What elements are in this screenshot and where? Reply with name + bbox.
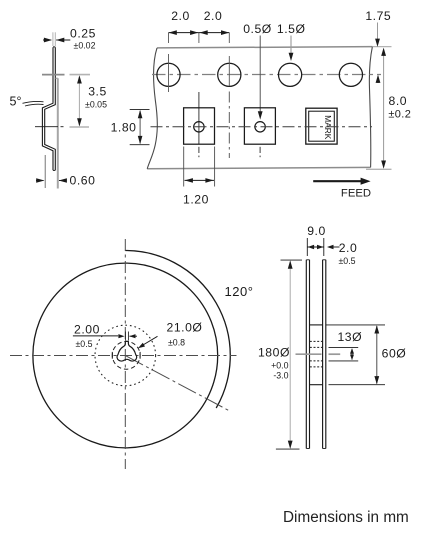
svg-text:120°: 120° xyxy=(224,284,253,299)
svg-text:21.0Ø: 21.0Ø xyxy=(167,320,203,334)
svg-text:5°: 5° xyxy=(10,95,22,109)
gray edge extensions right xyxy=(372,46,391,48)
dimension 0.25 arrows xyxy=(43,39,51,41)
MARK pocket outer xyxy=(306,108,337,144)
sprocket hole 3 xyxy=(279,63,302,86)
120 deg radius line xyxy=(125,356,228,411)
centerline below pocket 2 xyxy=(259,147,261,153)
svg-text:1.80: 1.80 xyxy=(111,121,137,135)
svg-text:1.20: 1.20 xyxy=(183,193,209,207)
dashed circle 13.2 xyxy=(112,341,140,369)
tape profile outline (section through pocket) xyxy=(42,47,53,170)
svg-text:2.0: 2.0 xyxy=(204,9,223,23)
dimension 1.80 xyxy=(130,108,150,110)
sprocket hole 4 xyxy=(339,63,362,86)
svg-text:60Ø: 60Ø xyxy=(382,347,407,361)
pocket row centerline xyxy=(151,126,373,128)
gray reference line at tape top (3.5 datum) xyxy=(42,74,65,76)
svg-text:0.25: 0.25 xyxy=(70,26,96,40)
svg-text:0.5Ø: 0.5Ø xyxy=(243,22,272,36)
thick gray rear surface / 0.60 extension line xyxy=(57,78,59,188)
svg-text:±0.2: ±0.2 xyxy=(388,109,411,121)
dimension 8.0 +/-0.2 xyxy=(383,50,385,167)
sprocket hole 2 xyxy=(218,63,241,86)
hub top edge xyxy=(310,324,323,326)
svg-text:±0.05: ±0.05 xyxy=(85,100,107,110)
hub tick marks xyxy=(111,352,113,359)
FEED arrow xyxy=(313,180,362,182)
svg-text:±0.8: ±0.8 xyxy=(168,337,185,347)
svg-text:9.0: 9.0 xyxy=(307,224,326,238)
svg-text:180Ø: 180Ø xyxy=(258,346,290,360)
svg-text:±0.5: ±0.5 xyxy=(338,256,355,266)
side view axis gray dashes xyxy=(296,353,322,355)
vertical centerline hole 1 xyxy=(168,33,170,43)
svg-text:2.0: 2.0 xyxy=(171,9,190,23)
dimension 2.0 / 2.0 chain xyxy=(169,32,199,34)
pocket 2 xyxy=(244,108,275,144)
hidden arbor hole lines xyxy=(310,340,323,342)
dimension 1.20 xyxy=(183,147,185,187)
vertical centerline pocket 1 xyxy=(198,33,200,43)
pocket 1 xyxy=(184,108,215,144)
svg-text:13Ø: 13Ø xyxy=(337,330,362,344)
reel outer circle xyxy=(33,263,218,448)
MARK pocket inner xyxy=(309,111,335,141)
reel horizontal centerline xyxy=(10,355,237,357)
tape top view outline xyxy=(157,47,372,48)
svg-text:1.75: 1.75 xyxy=(365,9,391,23)
svg-text:2.00: 2.00 xyxy=(74,322,100,336)
dimension 0.60 xyxy=(44,155,46,188)
sprocket hole centerline xyxy=(152,74,381,76)
hub bottom edge xyxy=(310,384,323,386)
svg-text:1.5Ø: 1.5Ø xyxy=(277,22,306,36)
dimension 3.5 +/-0.05 xyxy=(78,77,80,126)
svg-text:FEED: FEED xyxy=(341,188,371,200)
svg-text:3.5: 3.5 xyxy=(88,84,107,98)
center trefoil hole xyxy=(117,341,137,361)
svg-text:2.0: 2.0 xyxy=(339,241,358,255)
120 degree arc xyxy=(125,251,230,409)
vertical centerline hole 2 xyxy=(228,33,230,43)
tape cross-section: 0.25 extension lines xyxy=(52,32,54,46)
sprocket hole 1 xyxy=(157,63,180,86)
svg-text:±0.02: ±0.02 xyxy=(74,40,96,50)
right flange xyxy=(322,260,324,449)
svg-text:Dimensions in mm: Dimensions in mm xyxy=(283,509,409,526)
hub dotted circle 21.0 dia xyxy=(95,325,156,386)
svg-text:MARK: MARK xyxy=(323,115,333,139)
section centerline xyxy=(35,126,58,128)
svg-text:8.0: 8.0 xyxy=(389,94,408,108)
svg-text:-3.0: -3.0 xyxy=(273,371,288,381)
svg-text:+0.0: +0.0 xyxy=(271,360,288,370)
left flange xyxy=(305,260,307,449)
svg-text:±0.5: ±0.5 xyxy=(75,339,92,349)
svg-text:0.60: 0.60 xyxy=(70,174,96,188)
dimension 180 dia xyxy=(281,259,303,261)
reel vertical centerline xyxy=(124,239,126,469)
